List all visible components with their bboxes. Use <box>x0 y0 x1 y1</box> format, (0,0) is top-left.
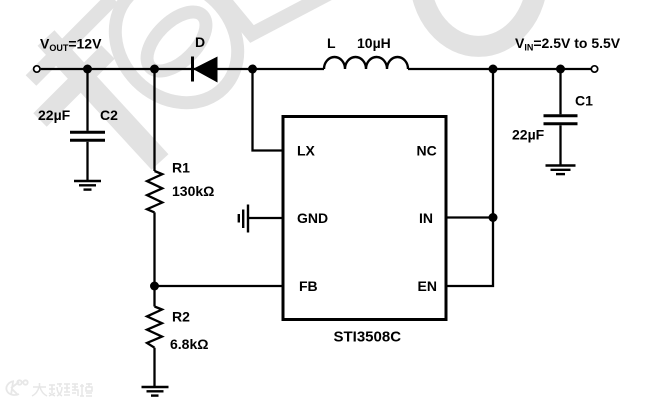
watermark stroke W1b <box>31 0 113 81</box>
svg-text:L: L <box>327 35 336 51</box>
watermark V mark <box>219 0 332 34</box>
inductor L <box>324 57 408 69</box>
wire LX drop <box>253 69 284 151</box>
wire top rail <box>41 68 324 70</box>
wire IN/EN vertical <box>447 69 493 286</box>
ground GND-pin (rotated) <box>239 205 248 233</box>
resistor R1 <box>147 71 162 286</box>
node C1 top <box>556 65 565 74</box>
svg-text:10µH: 10µH <box>357 35 391 51</box>
svg-text:R2: R2 <box>172 309 190 325</box>
svg-text:STI3508C: STI3508C <box>334 328 402 345</box>
ground C2 <box>74 181 101 190</box>
svg-text:LX: LX <box>297 142 316 158</box>
svg-text:FB: FB <box>299 278 318 294</box>
capacitor C2 <box>70 71 105 180</box>
node R1 top <box>150 65 159 74</box>
node LX <box>248 65 257 74</box>
terminal VOUT <box>34 66 40 72</box>
svg-text:EN: EN <box>418 278 437 294</box>
svg-text:VOUT=12V: VOUT=12V <box>40 36 102 54</box>
op-amp U1 STI3508C body <box>283 117 446 320</box>
svg-text:GND: GND <box>297 210 328 226</box>
wire FB <box>155 285 284 287</box>
terminal VIN <box>591 66 597 72</box>
node FB junction <box>150 282 159 291</box>
ground C1 <box>546 166 576 175</box>
watermark logo bottom-left <box>6 380 27 395</box>
resistor R2 <box>147 286 162 386</box>
node IN junction <box>489 213 498 222</box>
svg-text:R1: R1 <box>172 160 190 176</box>
watermark ring O2 <box>420 0 537 46</box>
ground R2 <box>142 387 169 396</box>
capacitor C1 <box>544 71 578 165</box>
watermark ring O1 outer <box>90 0 263 128</box>
svg-text:C1: C1 <box>575 93 593 109</box>
svg-text:NC: NC <box>417 142 437 158</box>
svg-text:D: D <box>195 34 205 50</box>
wire GND pin <box>248 217 283 219</box>
node C2 top <box>83 65 92 74</box>
svg-text:IN: IN <box>419 210 433 226</box>
svg-text:C2: C2 <box>100 107 118 123</box>
svg-text:130kΩ: 130kΩ <box>172 183 214 199</box>
node VIN-junction <box>489 65 498 74</box>
svg-text:6.8kΩ: 6.8kΩ <box>170 336 208 352</box>
svg-text:22µF: 22µF <box>512 127 545 143</box>
svg-text:22µF: 22µF <box>38 107 71 123</box>
svg-text:VIN=2.5V to 5.5V: VIN=2.5V to 5.5V <box>515 35 621 53</box>
wire IN pin <box>447 216 493 218</box>
watermark stroke W2 <box>46 38 160 162</box>
diode D <box>193 57 218 82</box>
watermark ring O1 inner <box>137 2 217 82</box>
watermark stroke W1 <box>40 52 108 120</box>
